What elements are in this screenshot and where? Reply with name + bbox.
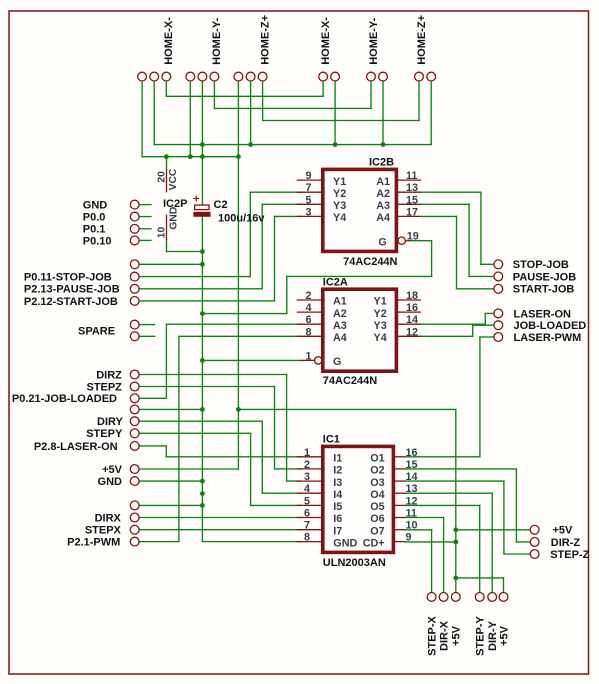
svg-text:A1: A1 — [333, 296, 347, 308]
svg-text:10: 10 — [156, 226, 167, 238]
svg-text:P2.13-PAUSE-JOB: P2.13-PAUSE-JOB — [24, 284, 120, 296]
svg-text:I1: I1 — [333, 453, 342, 465]
svg-text:O7: O7 — [370, 525, 384, 537]
svg-text:I4: I4 — [333, 489, 342, 501]
svg-text:9: 9 — [406, 532, 412, 544]
svg-text:I3: I3 — [333, 477, 342, 489]
svg-text:DIR-Z: DIR-Z — [551, 537, 581, 549]
svg-text:12: 12 — [406, 326, 418, 338]
svg-text:O4: O4 — [370, 489, 384, 501]
svg-text:100u/16v: 100u/16v — [218, 213, 265, 225]
svg-text:74AC244N: 74AC244N — [323, 375, 377, 387]
svg-text:HOME-Z+: HOME-Z+ — [259, 15, 271, 65]
svg-text:16: 16 — [406, 302, 418, 314]
svg-text:P0.1: P0.1 — [83, 224, 106, 236]
svg-text:HOME-X-: HOME-X- — [163, 17, 175, 65]
svg-text:15: 15 — [406, 194, 418, 206]
svg-text:7: 7 — [304, 520, 310, 532]
svg-text:Y3: Y3 — [333, 200, 346, 212]
svg-text:DIR-Y: DIR-Y — [487, 620, 499, 651]
svg-text:Y4: Y4 — [333, 212, 346, 224]
svg-text:15: 15 — [406, 459, 418, 471]
svg-text:8: 8 — [305, 326, 311, 338]
svg-text:6: 6 — [304, 508, 310, 520]
svg-text:G: G — [378, 236, 386, 248]
svg-text:LASER-PWM: LASER-PWM — [514, 332, 582, 344]
svg-text:IC2A: IC2A — [323, 277, 348, 289]
svg-text:13: 13 — [406, 483, 418, 495]
svg-text:12: 12 — [406, 495, 418, 507]
svg-text:DIR-X: DIR-X — [438, 620, 450, 651]
svg-text:STEP-Z: STEP-Z — [550, 549, 589, 561]
svg-text:P2.8-LASER-ON: P2.8-LASER-ON — [34, 441, 118, 453]
svg-text:GND: GND — [169, 207, 180, 230]
svg-text:CD+: CD+ — [363, 537, 385, 549]
svg-text:10: 10 — [406, 520, 418, 532]
svg-text:P2.12-START-JOB: P2.12-START-JOB — [24, 296, 118, 308]
svg-text:LASER-ON: LASER-ON — [514, 308, 572, 320]
svg-text:VCC: VCC — [168, 168, 179, 190]
svg-text:G: G — [333, 356, 341, 368]
svg-text:P0.10: P0.10 — [83, 235, 112, 247]
svg-text:I2: I2 — [333, 465, 342, 477]
svg-text:+5V: +5V — [102, 464, 123, 476]
svg-text:STOP-JOB: STOP-JOB — [513, 259, 569, 271]
svg-text:STEP-Y: STEP-Y — [475, 615, 487, 655]
svg-text:74AC244N: 74AC244N — [343, 256, 397, 268]
svg-text:A2: A2 — [333, 308, 347, 320]
svg-text:I5: I5 — [333, 501, 342, 513]
svg-text:P0.0: P0.0 — [83, 212, 106, 224]
svg-text:Y2: Y2 — [374, 308, 387, 320]
svg-text:HOME-Y-: HOME-Y- — [211, 17, 223, 64]
svg-text:Y1: Y1 — [333, 176, 346, 188]
svg-text:11: 11 — [406, 170, 417, 182]
svg-text:Y4: Y4 — [374, 332, 387, 344]
svg-text:DIRY: DIRY — [97, 416, 124, 428]
svg-text:STEP-X: STEP-X — [426, 615, 438, 655]
svg-text:Y3: Y3 — [374, 320, 387, 332]
svg-text:START-JOB: START-JOB — [513, 284, 575, 296]
svg-text:A3: A3 — [376, 200, 390, 212]
svg-text:+5V: +5V — [451, 625, 463, 646]
svg-text:17: 17 — [406, 206, 418, 218]
svg-text:P0.11-STOP-JOB: P0.11-STOP-JOB — [24, 272, 112, 284]
svg-text:O6: O6 — [370, 513, 384, 525]
svg-text:Y2: Y2 — [333, 188, 346, 200]
svg-text:+5V: +5V — [498, 625, 510, 646]
svg-text:HOME-Z+: HOME-Z+ — [416, 15, 428, 65]
svg-text:A4: A4 — [376, 212, 390, 224]
svg-text:19: 19 — [407, 231, 419, 243]
svg-text:5: 5 — [304, 495, 310, 507]
svg-text:8: 8 — [304, 532, 310, 544]
svg-text:STEPZ: STEPZ — [86, 381, 122, 393]
svg-text:14: 14 — [406, 471, 418, 483]
svg-text:P2.1-PWM: P2.1-PWM — [67, 537, 120, 549]
svg-text:DIRZ: DIRZ — [96, 369, 122, 381]
svg-text:GND: GND — [333, 537, 357, 549]
svg-text:STEPY: STEPY — [86, 428, 123, 440]
svg-text:11: 11 — [406, 508, 417, 520]
svg-text:Y1: Y1 — [374, 296, 387, 308]
svg-text:18: 18 — [406, 290, 418, 302]
svg-text:4: 4 — [304, 483, 310, 495]
svg-text:DIRX: DIRX — [95, 512, 122, 524]
svg-text:+5V: +5V — [553, 525, 574, 537]
svg-text:2: 2 — [304, 459, 310, 471]
svg-text:JOB-LOADED: JOB-LOADED — [514, 320, 587, 332]
svg-text:16: 16 — [406, 447, 418, 459]
svg-text:7: 7 — [305, 182, 311, 194]
svg-text:GND: GND — [83, 200, 108, 212]
svg-text:I7: I7 — [333, 525, 342, 537]
svg-text:3: 3 — [304, 471, 310, 483]
svg-text:I6: I6 — [333, 513, 342, 525]
svg-text:1: 1 — [305, 350, 311, 362]
svg-text:1: 1 — [304, 447, 310, 459]
svg-text:4: 4 — [305, 302, 311, 314]
svg-text:STEPX: STEPX — [85, 525, 122, 537]
svg-text:9: 9 — [305, 170, 311, 182]
svg-text:6: 6 — [305, 314, 311, 326]
svg-text:A3: A3 — [333, 320, 347, 332]
svg-text:HOME-X-: HOME-X- — [320, 17, 332, 65]
svg-text:PAUSE-JOB: PAUSE-JOB — [513, 271, 576, 283]
svg-text:O2: O2 — [370, 465, 384, 477]
svg-text:GND: GND — [98, 476, 123, 488]
svg-text:20: 20 — [156, 171, 167, 183]
svg-text:3: 3 — [305, 206, 311, 218]
svg-text:P0.21-JOB-LOADED: P0.21-JOB-LOADED — [12, 393, 117, 405]
svg-text:2: 2 — [305, 290, 311, 302]
svg-text:A1: A1 — [376, 176, 390, 188]
svg-text:O5: O5 — [370, 501, 384, 513]
svg-text:IC2B: IC2B — [369, 156, 394, 168]
svg-text:SPARE: SPARE — [78, 326, 115, 338]
svg-text:A2: A2 — [376, 188, 390, 200]
svg-text:O3: O3 — [370, 477, 384, 489]
svg-text:HOME-Y-: HOME-Y- — [368, 17, 380, 64]
svg-text:14: 14 — [406, 314, 418, 326]
svg-text:O1: O1 — [370, 453, 384, 465]
svg-text:5: 5 — [305, 194, 311, 206]
svg-text:13: 13 — [406, 182, 418, 194]
svg-text:C2: C2 — [214, 199, 228, 211]
svg-text:IC1: IC1 — [323, 433, 340, 445]
svg-text:A4: A4 — [333, 332, 347, 344]
svg-text:ULN2003AN: ULN2003AN — [323, 557, 386, 569]
